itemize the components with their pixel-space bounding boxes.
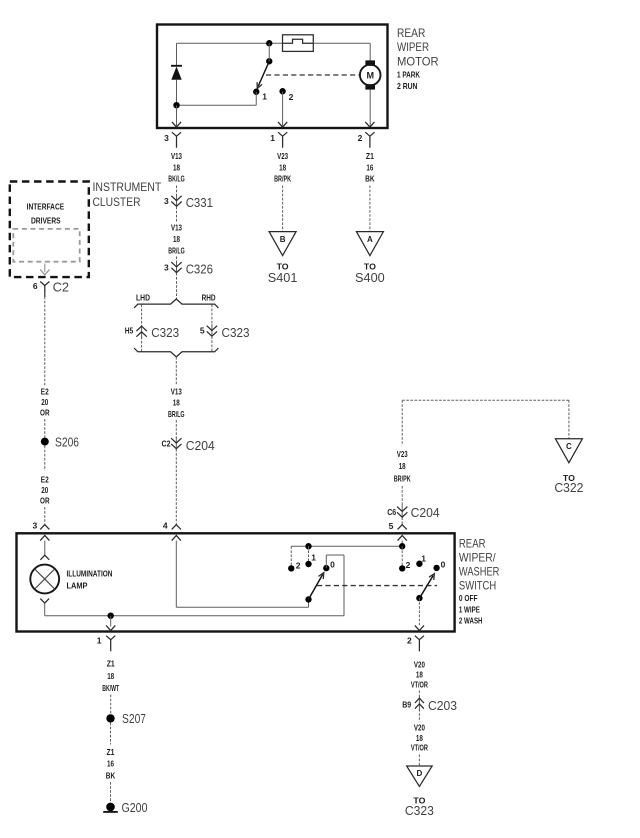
svg-text:C6: C6 (387, 507, 396, 517)
wire washer pivot to pin 2 (418, 598, 420, 626)
svg-text:3: 3 (164, 196, 169, 206)
wire pin3 to C331 (176, 186, 178, 196)
svg-text:1: 1 (270, 133, 275, 143)
svg-text:BK: BK (365, 174, 375, 184)
svg-text:VT/OR: VT/OR (411, 679, 428, 689)
split brace top (134, 299, 218, 308)
svg-text:B: B (280, 235, 286, 244)
svg-text:C2: C2 (162, 439, 171, 449)
wire C322 drop (568, 400, 570, 438)
cluster output arrow (44, 264, 46, 273)
wire junction to pin 3 (176, 105, 178, 127)
svg-text:REAR: REAR (397, 26, 426, 40)
wire RHD branch upper (211, 305, 213, 326)
svg-text:2: 2 (406, 560, 411, 570)
svg-text:0: 0 (330, 559, 335, 569)
ground G200 (106, 803, 115, 812)
motor M (360, 65, 381, 86)
svg-text:Z1: Z1 (366, 151, 374, 161)
svg-text:MOTOR: MOTOR (397, 54, 439, 68)
connector C323 RHD (211, 324, 213, 337)
svg-text:20: 20 (41, 397, 48, 407)
svg-text:BR/PK: BR/PK (394, 474, 412, 484)
split brace bottom (134, 348, 218, 357)
svg-text:CLUSTER: CLUSTER (93, 195, 141, 209)
wire feed to contact 2 (wiper) (290, 546, 292, 565)
svg-text:2: 2 (358, 133, 363, 143)
switch pin 2 connector fork (415, 636, 424, 652)
svg-text:V20: V20 (414, 723, 425, 733)
svg-text:1: 1 (97, 635, 102, 645)
svg-text:ILLUMINATION: ILLUMINATION (67, 569, 113, 579)
svg-text:1 PARK: 1 PARK (397, 70, 421, 80)
svg-text:BK/WT: BK/WT (102, 683, 119, 693)
svg-text:16: 16 (366, 162, 373, 172)
svg-text:18: 18 (399, 461, 406, 471)
svg-text:C323: C323 (222, 325, 250, 340)
svg-text:BK/LG: BK/LG (168, 174, 185, 184)
switch pin 1 connector fork (106, 636, 115, 652)
svg-text:DRIVERS: DRIVERS (31, 216, 61, 226)
connector C323 LHD (141, 325, 143, 338)
wire labels to S206 (44, 419, 46, 438)
svg-text:18: 18 (107, 671, 114, 681)
wire labels to S207 (110, 695, 112, 715)
wiper contact 1 (305, 561, 311, 567)
svg-text:BK: BK (106, 771, 116, 781)
wire labels to C326 (176, 257, 178, 262)
svg-text:Z1: Z1 (107, 659, 115, 669)
svg-text:WASHER: WASHER (459, 565, 500, 579)
svg-text:2: 2 (289, 92, 294, 102)
wire pin5 to feed (401, 541, 403, 547)
switch pin 4 fork (172, 525, 181, 530)
svg-text:H5: H5 (125, 326, 134, 336)
svg-text:4: 4 (163, 520, 168, 530)
svg-text:OR: OR (40, 496, 50, 506)
svg-text:V13: V13 (171, 386, 182, 396)
svg-text:RHD: RHD (202, 293, 216, 303)
svg-text:INTERFACE: INTERFACE (27, 202, 65, 212)
svg-text:E2: E2 (41, 475, 49, 485)
wiper switch feed wire (291, 545, 402, 547)
wire S207 to Z1 labels (110, 723, 112, 745)
wire C203 to labels (418, 709, 420, 722)
svg-text:V13: V13 (171, 151, 182, 161)
svg-text:1: 1 (421, 554, 426, 564)
wire feed to contact 1 (wiper) (308, 546, 310, 560)
wire pin4 to wiper pivot (175, 541, 177, 608)
svg-text:5: 5 (389, 521, 394, 531)
svg-text:18: 18 (173, 162, 180, 172)
motor box pin 1 exit arrow (278, 122, 287, 127)
wire pin1 to triangle B (282, 186, 284, 232)
washer contact 2 (399, 565, 405, 571)
switch pin 5 fork (398, 525, 407, 530)
svg-text:C331: C331 (186, 195, 213, 210)
wire labels to G200 (110, 782, 112, 803)
svg-text:16: 16 (107, 759, 114, 769)
svg-text:REAR: REAR (459, 537, 486, 551)
svg-text:SWITCH: SWITCH (459, 579, 496, 593)
svg-text:C326: C326 (186, 262, 213, 277)
wire RHD branch lower (211, 336, 213, 351)
svg-text:B9: B9 (402, 700, 411, 710)
svg-text:18: 18 (279, 162, 286, 172)
switch pin 3 fork (40, 525, 49, 530)
node junction diode bottom (173, 102, 179, 108)
wire motor to pin 2 (369, 90, 371, 127)
wire top horizontal feed (177, 42, 283, 44)
svg-text:V13: V13 (171, 222, 182, 232)
thermal breaker element (283, 35, 314, 52)
rear wiper motor box outline (157, 25, 388, 129)
svg-text:VT/OR: VT/OR (411, 743, 428, 753)
svg-text:0: 0 (441, 559, 446, 569)
connector C326 (176, 261, 178, 274)
park switch pivot node (266, 58, 272, 64)
svg-text:INSTRUMENT: INSTRUMENT (93, 180, 162, 194)
svg-text:C2: C2 (53, 280, 69, 295)
svg-text:18: 18 (416, 733, 423, 743)
triangle connector C to C322 (555, 439, 582, 463)
svg-text:G200: G200 (122, 800, 148, 815)
svg-text:1: 1 (262, 92, 267, 102)
wiper switch pivot (305, 596, 311, 602)
svg-text:3: 3 (32, 520, 37, 530)
wire labels to C204 (175, 420, 177, 438)
svg-text:Z1: Z1 (107, 747, 115, 757)
svg-text:6: 6 (33, 281, 38, 291)
svg-text:C323: C323 (405, 803, 434, 818)
wire diode bottom vertical (176, 80, 178, 105)
triangle connector A to S400 (356, 232, 383, 256)
wiper switch arm (309, 574, 323, 599)
wire labels to triangle D (418, 755, 420, 766)
svg-text:LHD: LHD (136, 293, 150, 303)
wire contact0 route (325, 555, 327, 568)
lamp top contact (40, 555, 49, 560)
wire feed to contact 2 (washer) (401, 546, 403, 565)
svg-text:M: M (366, 70, 374, 80)
washer switch pivot (416, 595, 422, 601)
motor box pin 2 connector fork (365, 132, 374, 148)
node feed right junction (399, 543, 405, 549)
svg-text:BR/LG: BR/LG (168, 246, 185, 256)
svg-text:BR/LG: BR/LG (168, 409, 185, 419)
svg-text:2 RUN: 2 RUN (397, 81, 418, 91)
svg-text:C322: C322 (554, 480, 583, 495)
motor M brushes (365, 60, 375, 65)
connector C203 (418, 697, 420, 710)
wire LHD branch upper (141, 305, 143, 326)
svg-text:2: 2 (407, 636, 412, 646)
svg-text:3: 3 (164, 262, 169, 272)
svg-text:V23: V23 (397, 449, 408, 459)
triangle connector D to C323 (407, 766, 433, 787)
svg-text:D: D (417, 769, 423, 778)
splice S207 (106, 714, 114, 722)
svg-text:1 WIPE: 1 WIPE (459, 605, 480, 615)
svg-text:3: 3 (164, 133, 169, 143)
node junction on top feed (266, 40, 272, 46)
svg-text:2: 2 (296, 561, 301, 571)
wire C326 to split (176, 273, 178, 299)
wire breaker to motor (313, 42, 370, 44)
wire labels to switch pin 3 (44, 507, 46, 525)
wiper contact 2 (288, 565, 294, 571)
svg-text:20: 20 (41, 485, 48, 495)
svg-text:1: 1 (311, 552, 316, 562)
svg-text:C: C (566, 442, 572, 451)
svg-text:V23: V23 (277, 151, 288, 161)
svg-text:2 WASH: 2 WASH (459, 615, 483, 625)
node junction pin1 (108, 613, 114, 619)
wire C331 to labels (176, 207, 178, 222)
wire LHD branch lower (141, 337, 143, 352)
mechanical linkage dashes (motor) (266, 74, 360, 76)
svg-text:E2: E2 (41, 387, 49, 397)
park switch contact 2 (279, 88, 285, 94)
wire S206 to E2 labels (44, 446, 46, 471)
svg-text:A: A (367, 235, 373, 244)
lamp bottom contact (40, 599, 49, 604)
svg-text:S206: S206 (55, 434, 79, 449)
node feed left junction (305, 543, 311, 549)
washer contact 0 (433, 565, 439, 571)
svg-text:OR: OR (40, 408, 50, 418)
switch pin 2 exit arrow (415, 625, 424, 630)
wire diode top vertical (176, 43, 178, 65)
wire contact1 to pin3 run (255, 92, 257, 105)
park switch contact 1 (253, 89, 259, 95)
wire lamp to bottom run (44, 603, 46, 616)
motor box pin 1 connector fork (278, 132, 287, 148)
wire contact2 to pin 1 (282, 91, 284, 127)
wire C2 to E2 labels (44, 293, 46, 387)
connector C204 (175, 437, 177, 450)
wire split to labels (175, 357, 177, 386)
washer switch arm (419, 576, 433, 599)
splice S206 (41, 438, 49, 446)
wire pin2 to triangle A (369, 186, 371, 232)
wire pivot stub (268, 43, 270, 61)
svg-text:18: 18 (173, 398, 180, 408)
motor box pin 3 exit arrow (172, 122, 181, 127)
svg-text:BR/PK: BR/PK (274, 174, 292, 184)
diode CR1 (park diode) (171, 65, 182, 67)
interface drivers inner dashed box (13, 229, 79, 262)
svg-text:V20: V20 (414, 660, 425, 670)
wire junction to pin1 exit (110, 616, 112, 627)
wire pin3 to lamp (44, 541, 46, 556)
svg-text:S401: S401 (268, 270, 298, 285)
rear wiper/washer switch box outline (17, 533, 455, 631)
svg-text:0 OFF: 0 OFF (459, 593, 478, 603)
svg-text:18: 18 (173, 234, 180, 244)
triangle connector B to S401 (269, 232, 296, 256)
wire C204 to pin 5 (401, 517, 403, 524)
svg-text:C204: C204 (411, 505, 440, 520)
svg-text:C204: C204 (186, 438, 215, 453)
connector C331 (176, 194, 178, 207)
svg-text:C203: C203 (428, 698, 457, 713)
motor box pin 2 exit arrow (365, 122, 374, 127)
svg-text:WIPER/: WIPER/ (459, 551, 496, 565)
washer contact 1 (416, 561, 422, 567)
switch pin 4 entry arrow (172, 535, 181, 540)
wire C204 to switch pin 4 (175, 449, 177, 525)
wiper contact 0 (323, 565, 329, 571)
svg-text:18: 18 (416, 670, 423, 680)
park switch arm (258, 61, 269, 86)
svg-text:S207: S207 (122, 711, 146, 726)
svg-text:C323: C323 (151, 325, 179, 340)
switch pin 3 entry arrow (40, 535, 49, 540)
svg-text:S400: S400 (355, 270, 385, 285)
connector C204 (C6) (401, 505, 403, 518)
svg-text:LAMP: LAMP (67, 580, 88, 590)
svg-text:WIPER: WIPER (397, 40, 429, 54)
connector C2 fork (40, 282, 49, 298)
switch pin 5 entry arrow (398, 535, 407, 540)
svg-text:5: 5 (200, 326, 205, 336)
wire switch pin5 riser (401, 400, 403, 445)
switch pin 1 exit arrow (106, 625, 115, 630)
mechanical linkage dashes (switch) (317, 585, 437, 587)
instrument cluster dashed box (10, 182, 89, 278)
illumination lamp (30, 565, 59, 594)
wire labels to C203 (418, 691, 420, 698)
motor box pin 3 connector fork (172, 132, 181, 148)
